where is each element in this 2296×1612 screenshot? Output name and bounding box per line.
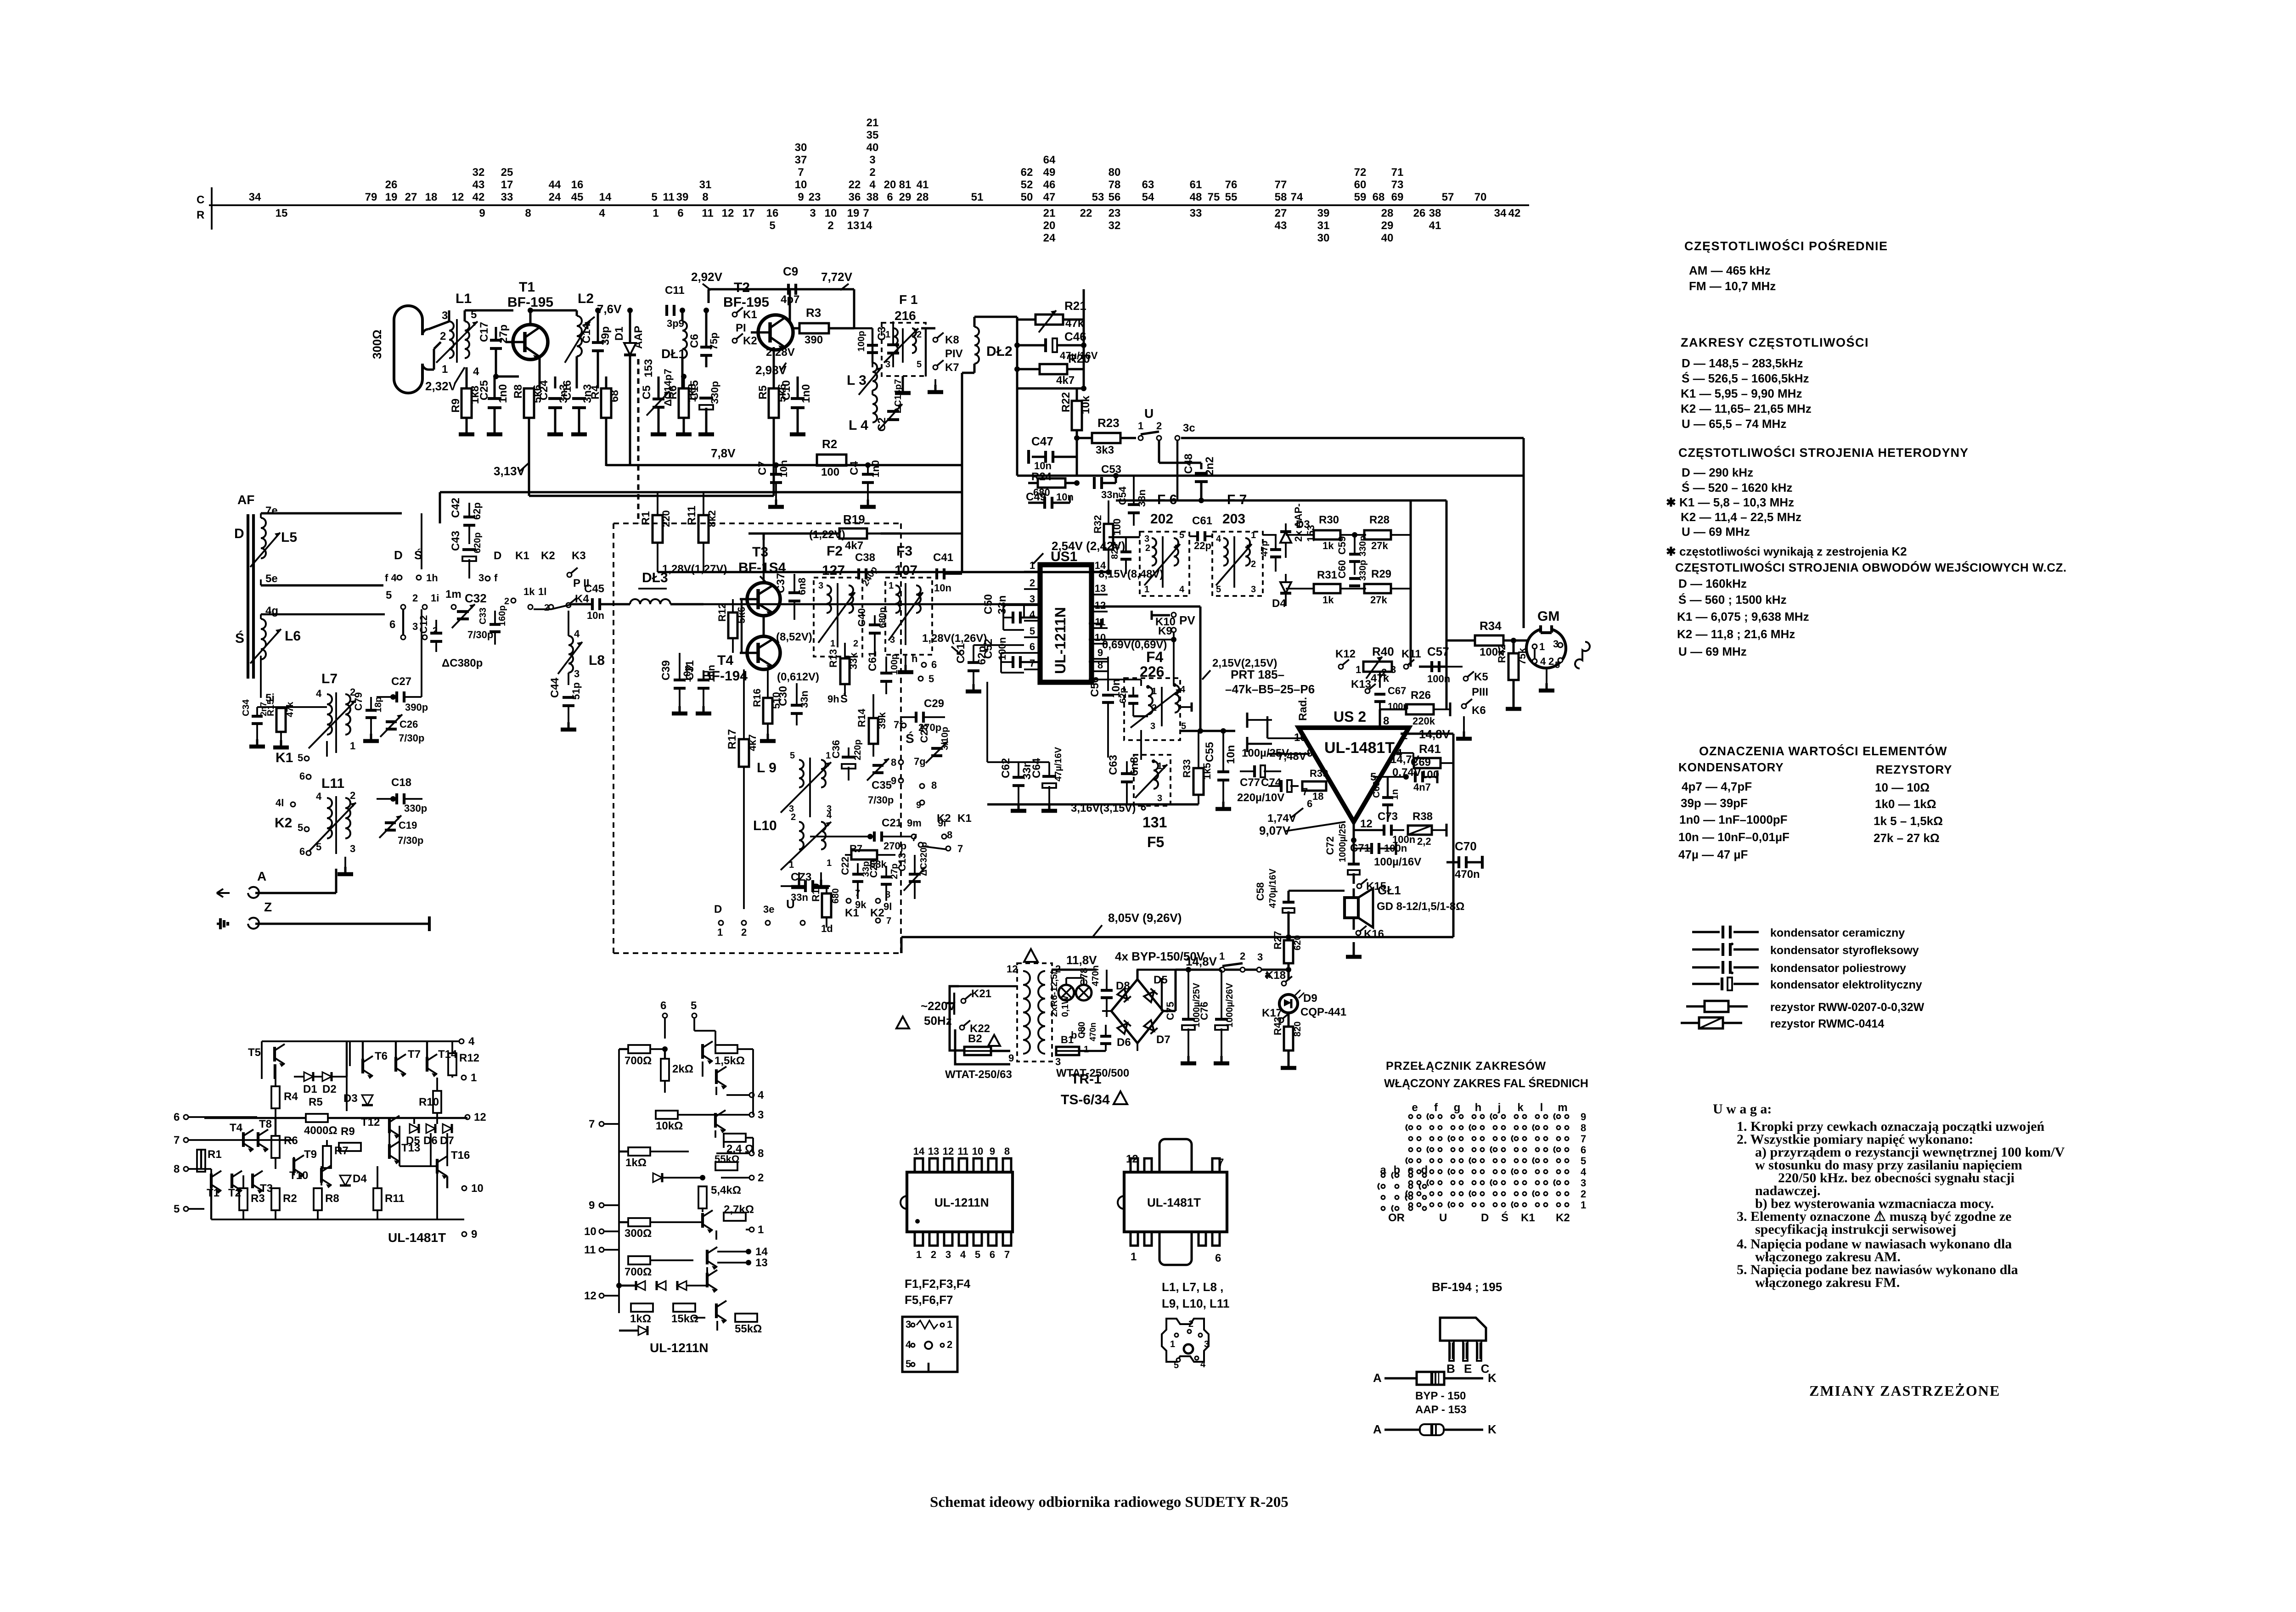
- svg-text:9: 9: [990, 1146, 995, 1157]
- svg-text:1: 1: [830, 639, 835, 649]
- svg-text:160p: 160p: [497, 605, 507, 626]
- svg-text:T13: T13: [401, 1142, 420, 1154]
- svg-text:1: 1: [916, 1249, 922, 1260]
- svg-text:81: 81: [899, 179, 912, 191]
- svg-text:rezystor RWW-0207-0-0,32W: rezystor RWW-0207-0-0,32W: [1770, 1001, 1925, 1014]
- svg-text:1,28V(1,26V): 1,28V(1,26V): [922, 632, 987, 645]
- svg-text:GŁ1: GŁ1: [1378, 883, 1401, 897]
- svg-text:75: 75: [1208, 191, 1220, 203]
- svg-text:C: C: [197, 194, 204, 206]
- resistor R11 int: [373, 1188, 382, 1210]
- svg-text:K2: K2: [870, 907, 884, 919]
- svg-text:3: 3: [1251, 584, 1256, 595]
- svg-text:15kΩ: 15kΩ: [671, 1313, 698, 1325]
- svg-text:R4: R4: [284, 1090, 298, 1103]
- svg-text:C59: C59: [1336, 536, 1348, 555]
- svg-text:L2: L2: [578, 291, 594, 306]
- resistor R12 5k6: [728, 612, 737, 638]
- svg-text:8: 8: [702, 191, 708, 203]
- svg-text:C51: C51: [955, 643, 967, 663]
- svg-text:4: 4: [1180, 685, 1186, 695]
- svg-text:R10: R10: [419, 1096, 439, 1108]
- resistor R24 680: [1038, 478, 1065, 488]
- ps switch 1 2 3a: [1220, 967, 1225, 972]
- svg-text:WTAT-250/500: WTAT-250/500: [1056, 1067, 1129, 1079]
- svg-text:20: 20: [884, 179, 896, 191]
- svg-text:100µ/16V: 100µ/16V: [1374, 856, 1421, 868]
- svg-text:7: 7: [1302, 786, 1308, 798]
- svg-text:27k: 27k: [1370, 594, 1387, 606]
- svg-text:10: 10: [584, 1225, 597, 1238]
- svg-text:7: 7: [1581, 1133, 1586, 1145]
- svg-text:9i: 9i: [938, 817, 946, 829]
- wire F6-F7 chain: [1109, 536, 1140, 538]
- svg-text:C62: C62: [1000, 758, 1012, 778]
- svg-text:3: 3: [758, 1109, 764, 1121]
- svg-text:8: 8: [1581, 1122, 1586, 1134]
- capacitor 82p F6: [1120, 550, 1131, 553]
- svg-text:1: 1: [1581, 1199, 1586, 1211]
- UL-1481T internal bottom rail: [211, 1219, 464, 1220]
- svg-text:390: 390: [805, 334, 823, 346]
- svg-text:10k: 10k: [1080, 395, 1092, 414]
- svg-text:9: 9: [798, 191, 804, 203]
- svg-text:C75: C75: [1165, 1002, 1176, 1020]
- svg-text:34: 34: [249, 191, 261, 203]
- resistor R11 8k2: [698, 515, 709, 543]
- svg-text:K8: K8: [945, 334, 959, 346]
- svg-text:1k5: 1k5: [1201, 763, 1213, 780]
- svg-text:K5: K5: [1474, 671, 1488, 683]
- svg-text:1k0 — 1kΩ: 1k0 — 1kΩ: [1875, 797, 1936, 811]
- svg-text:5: 5: [386, 589, 392, 601]
- svg-text:R42: R42: [1496, 645, 1508, 663]
- svg-text:R29: R29: [1371, 568, 1391, 580]
- svg-text:R26: R26: [1411, 689, 1431, 702]
- svg-text:K2: K2: [541, 550, 555, 562]
- svg-text:9: 9: [1581, 1111, 1586, 1123]
- svg-text:C54: C54: [1117, 486, 1128, 505]
- svg-text:100n: 100n: [996, 637, 1008, 660]
- svg-text:C34: C34: [241, 699, 251, 716]
- svg-text:Ś — 520 – 1620 kHz: Ś — 520 – 1620 kHz: [1682, 481, 1792, 494]
- svg-text:60: 60: [1354, 179, 1367, 191]
- svg-text:R3: R3: [251, 1192, 265, 1205]
- svg-text:KONDENSATORY: KONDENSATORY: [1678, 760, 1784, 774]
- svg-text:4: 4: [1216, 534, 1221, 544]
- svg-text:39p: 39p: [599, 326, 612, 345]
- svg-text:27p: 27p: [497, 325, 510, 343]
- svg-text:PIV: PIV: [945, 348, 963, 360]
- F3 coils: [895, 585, 900, 613]
- svg-text:T6: T6: [375, 1050, 388, 1062]
- resistor R22 10k: [1072, 401, 1082, 430]
- svg-text:R6: R6: [667, 385, 679, 399]
- capacitor C69 4n7: [1414, 771, 1417, 782]
- svg-text:4k7: 4k7: [845, 539, 863, 552]
- capacitor C28 3/10p trimmer: [931, 747, 942, 750]
- svg-text:51p: 51p: [570, 682, 582, 700]
- transistor int a: [701, 1044, 704, 1059]
- svg-text:C26: C26: [400, 719, 418, 730]
- svg-text:620: 620: [1293, 935, 1303, 950]
- potentiometer R40 47k: [1363, 662, 1392, 672]
- svg-text:K1: K1: [743, 309, 757, 321]
- svg-text:T4: T4: [717, 653, 733, 668]
- svg-text:3p9: 3p9: [667, 318, 684, 329]
- capacitor C49 10n: [1043, 497, 1046, 509]
- svg-text:U — 69 MHz: U — 69 MHz: [1678, 645, 1747, 658]
- svg-text:8: 8: [931, 780, 937, 791]
- svg-text:kondensator poliestrowy: kondensator poliestrowy: [1770, 962, 1906, 975]
- svg-text:1k: 1k: [523, 586, 535, 597]
- svg-text:2: 2: [947, 1339, 952, 1350]
- svg-text:3: 3: [1553, 638, 1559, 650]
- svg-text:2: 2: [931, 1249, 936, 1260]
- wire R20 node down: [1083, 349, 1085, 388]
- svg-text:12: 12: [584, 1290, 597, 1302]
- svg-text:D: D: [394, 548, 403, 562]
- svg-text:1: 1: [1084, 1045, 1089, 1055]
- svg-text:48: 48: [1190, 191, 1202, 203]
- svg-text:1kΩ: 1kΩ: [630, 1313, 651, 1325]
- svg-text:5: 5: [917, 359, 922, 370]
- svg-text:b: b: [1071, 1029, 1077, 1041]
- svg-text:64: 64: [1043, 154, 1056, 166]
- capacitor C59 330p: [1349, 553, 1360, 556]
- svg-text:11: 11: [584, 1244, 596, 1256]
- coil shield can: [1162, 1319, 1209, 1362]
- wire US1 pin8 to F4: [1089, 679, 1141, 680]
- diode D1 AAP-153: [624, 343, 636, 355]
- svg-text:13: 13: [1095, 583, 1106, 594]
- mains wires: [953, 993, 955, 1015]
- svg-text:54: 54: [1142, 191, 1154, 203]
- svg-text:5: 5: [691, 1000, 697, 1012]
- transistor int e: [706, 1250, 709, 1264]
- transistor T13: [388, 1144, 391, 1159]
- capacitor C37 6n8: [788, 591, 800, 594]
- svg-text:BYP - 150: BYP - 150: [1415, 1390, 1466, 1402]
- diode D4 int: [340, 1175, 351, 1185]
- svg-text:B2: B2: [968, 1033, 982, 1045]
- filter box symbol: [902, 1317, 957, 1372]
- svg-text:7/30p: 7/30p: [399, 732, 424, 744]
- resistor R32 100: [1104, 524, 1113, 550]
- diodes D5 D6 D7: [410, 1124, 419, 1133]
- svg-text:C30: C30: [777, 686, 789, 706]
- svg-text:U: U: [786, 897, 795, 911]
- svg-text:k: k: [1517, 1101, 1524, 1114]
- svg-text:300Ω: 300Ω: [625, 1227, 652, 1240]
- svg-text:R43: R43: [1272, 1017, 1283, 1035]
- svg-text:R11: R11: [686, 506, 698, 525]
- svg-text:2,32V: 2,32V: [425, 379, 457, 393]
- warning triangle mains: [896, 1017, 909, 1028]
- resistor R3 int: [239, 1188, 248, 1210]
- US1 pin11 ground stub: [1089, 623, 1101, 624]
- capacitor C32 7/30p trimmer: [457, 610, 469, 613]
- svg-text:L6: L6: [285, 629, 301, 644]
- svg-text:1,5kΩ: 1,5kΩ: [715, 1055, 745, 1067]
- svg-text:C39: C39: [660, 660, 672, 680]
- svg-text:4: 4: [316, 791, 322, 802]
- resistor R10 680: [822, 893, 831, 917]
- svg-text:R10: R10: [810, 883, 822, 902]
- svg-text:D6: D6: [1117, 1036, 1131, 1049]
- svg-text:4: 4: [1179, 584, 1185, 595]
- svg-text:T3: T3: [752, 545, 768, 560]
- svg-text:–47k–B5–25–P6: –47k–B5–25–P6: [1225, 682, 1315, 696]
- svg-text:700Ω: 700Ω: [625, 1055, 652, 1067]
- pin 7 left: [599, 1122, 604, 1126]
- BF package legs: [1449, 1341, 1454, 1361]
- F1 ground: [902, 376, 904, 386]
- svg-text:1k: 1k: [1322, 540, 1334, 551]
- resistor 1,5k: [715, 1045, 737, 1053]
- svg-text:K2 — 11,65– 21,65 MHz: K2 — 11,65– 21,65 MHz: [1681, 402, 1812, 416]
- resistor R19 4k7: [839, 528, 867, 539]
- svg-text:US1: US1: [1051, 549, 1077, 564]
- resistor R3 390: [799, 323, 829, 333]
- svg-text:3: 3: [1055, 1056, 1061, 1067]
- svg-text:C44: C44: [549, 677, 561, 698]
- svg-text:270p: 270p: [884, 840, 906, 852]
- resistor R12 int: [448, 1053, 456, 1075]
- resistor R1 220: [653, 515, 663, 543]
- svg-text:U: U: [1144, 406, 1154, 421]
- svg-text:C63: C63: [1107, 755, 1120, 775]
- svg-text:C31: C31: [684, 660, 696, 680]
- svg-text:68: 68: [608, 390, 621, 402]
- svg-text:2: 2: [869, 166, 875, 179]
- svg-text:1: 1: [758, 1224, 764, 1236]
- legend kondensator ceramiczny: [1692, 931, 1720, 933]
- svg-text:6: 6: [931, 659, 937, 670]
- svg-text:22p: 22p: [1194, 540, 1211, 551]
- svg-text:C19: C19: [399, 820, 417, 831]
- svg-text:2: 2: [350, 790, 355, 801]
- svg-text:T16: T16: [451, 1149, 470, 1162]
- svg-text:R40: R40: [1372, 645, 1394, 658]
- capacitor C13 C320p trimmer: [909, 873, 921, 876]
- svg-text:K21: K21: [971, 988, 991, 1000]
- svg-text:T9: T9: [304, 1148, 317, 1161]
- svg-text:5: 5: [1179, 530, 1184, 540]
- wire T2 collector up: [789, 289, 791, 321]
- svg-text:K1: K1: [957, 812, 972, 825]
- resistor R5 4000: [306, 1114, 328, 1122]
- svg-text:3: 3: [1150, 721, 1155, 731]
- svg-text:C18: C18: [391, 776, 411, 789]
- svg-text:Ś: Ś: [840, 692, 848, 705]
- svg-text:f: f: [494, 572, 498, 584]
- capacitor C50 33n: [1012, 612, 1014, 623]
- wire DL2 rails: [974, 316, 1017, 318]
- svg-text:33k: 33k: [848, 652, 859, 669]
- UL-1481T internal top rail: [262, 1040, 461, 1042]
- svg-text:10 — 10Ω: 10 — 10Ω: [1875, 781, 1930, 794]
- capacitor C23 33n: [804, 880, 807, 892]
- transistors T6 T7 T14: [361, 1059, 364, 1073]
- switch K11: [1404, 664, 1408, 669]
- svg-text:1: 1: [1401, 730, 1407, 742]
- svg-text:C4: C4: [848, 461, 861, 475]
- svg-text:4n7: 4n7: [1413, 781, 1431, 793]
- svg-text:✱ K1 — 5,8 – 10,3 MHz: ✱ K1 — 5,8 – 10,3 MHz: [1666, 495, 1794, 509]
- right vertical rail to GM: [1523, 438, 1525, 628]
- svg-text:1: 1: [1144, 584, 1149, 595]
- svg-text:Ś: Ś: [235, 630, 244, 646]
- svg-text:T1: T1: [207, 1187, 219, 1199]
- svg-text:R41: R41: [1419, 742, 1441, 756]
- svg-text:C42: C42: [450, 498, 462, 518]
- capacitor C10 1n0: [791, 397, 805, 400]
- svg-text:20: 20: [1043, 219, 1056, 232]
- svg-text:3: 3: [1204, 1339, 1209, 1349]
- svg-text:C14: C14: [580, 323, 593, 343]
- svg-text:T1: T1: [519, 280, 535, 295]
- svg-text:5: 5: [298, 822, 303, 833]
- svg-text:11: 11: [957, 1146, 968, 1157]
- svg-text:C46: C46: [1064, 330, 1086, 343]
- svg-text:1n0: 1n0: [800, 384, 812, 403]
- svg-text:76: 76: [1225, 179, 1238, 191]
- switch contact K1 PI K2: [732, 312, 737, 317]
- wire bus y1072: [440, 491, 962, 494]
- svg-text:C64: C64: [1030, 758, 1043, 778]
- UL-1481T internal extra wires: [210, 1169, 212, 1188]
- svg-text:59: 59: [1354, 191, 1367, 203]
- svg-text:ZAKRESY CZĘSTOTLIWOŚCI: ZAKRESY CZĘSTOTLIWOŚCI: [1681, 335, 1869, 349]
- IC US2 UL-1481T triangle: [1299, 728, 1409, 822]
- svg-text:4: 4: [316, 688, 322, 699]
- svg-text:a: a: [1265, 969, 1271, 980]
- wire to F1: [853, 289, 855, 328]
- capacitor C71 100n: [1370, 843, 1373, 854]
- svg-text:6n8: 6n8: [1128, 757, 1141, 776]
- svg-text:9: 9: [891, 775, 896, 786]
- svg-text:14: 14: [913, 1146, 925, 1157]
- GM hook symbol: [1575, 642, 1590, 668]
- F4 ground stub: [1180, 706, 1192, 708]
- svg-text:CZĘSTOTLIWOŚCI STROJENIA HE: CZĘSTOTLIWOŚCI STROJENIA HETERODYNY: [1678, 445, 1969, 460]
- svg-text:C61: C61: [867, 651, 879, 671]
- svg-text:F5,F6,F7: F5,F6,F7: [905, 1293, 953, 1307]
- svg-text:C48: C48: [1182, 454, 1195, 474]
- resistor 300R: [628, 1218, 650, 1226]
- svg-text:14: 14: [860, 219, 872, 232]
- svg-text:R17: R17: [726, 729, 738, 749]
- resistor 55k b: [735, 1314, 757, 1322]
- svg-text:78: 78: [1109, 179, 1121, 191]
- svg-text:1: 1: [1138, 420, 1143, 432]
- svg-text:9: 9: [471, 1228, 477, 1241]
- F3 ground: [905, 655, 906, 666]
- svg-text:4: 4: [599, 207, 605, 219]
- svg-text:C72: C72: [1324, 837, 1336, 855]
- svg-text:C9: C9: [783, 264, 798, 278]
- svg-text:T2: T2: [734, 280, 750, 295]
- transistors T1 T2 T3: [210, 1174, 213, 1188]
- svg-text:10n: 10n: [1034, 460, 1052, 472]
- svg-text:14,8V: 14,8V: [1186, 955, 1217, 968]
- svg-text:30: 30: [795, 141, 807, 154]
- capacitor C20 27p: [881, 876, 892, 878]
- svg-text:U w a g a:: U w a g a:: [1713, 1101, 1772, 1117]
- svg-text:22: 22: [1080, 207, 1092, 219]
- svg-text:7,72V: 7,72V: [821, 270, 853, 284]
- svg-text:203: 203: [1222, 511, 1245, 527]
- svg-text:5: 5: [906, 1358, 911, 1370]
- transistor int g: [715, 1303, 718, 1318]
- capacitor C56 10n: [1102, 694, 1114, 696]
- svg-text:5: 5: [1581, 1155, 1586, 1167]
- svg-text:C21: C21: [882, 817, 902, 829]
- wire discriminator rail: [1410, 500, 1412, 589]
- svg-text:D — 160kHz: D — 160kHz: [1678, 577, 1747, 590]
- svg-text:T8: T8: [259, 1118, 272, 1130]
- svg-text:e: e: [1412, 1101, 1418, 1114]
- pin 10 left: [599, 1229, 604, 1234]
- svg-text:D8: D8: [1116, 980, 1130, 992]
- box around T2 top wire: [709, 288, 854, 291]
- svg-text:D — 290 kHz: D — 290 kHz: [1682, 466, 1753, 479]
- svg-text:12: 12: [452, 191, 464, 203]
- svg-text:2: 2: [827, 219, 833, 232]
- wire left drop x958: [439, 492, 441, 523]
- component index ruler line: [209, 204, 1529, 206]
- capacitor C9 4p7: [787, 284, 790, 295]
- pin 2 right: [721, 1177, 749, 1179]
- svg-text:10kΩ: 10kΩ: [656, 1120, 683, 1132]
- svg-text:R28: R28: [1369, 514, 1390, 526]
- svg-text:7/30p: 7/30p: [467, 629, 493, 640]
- UL-1481T internal pins right: [459, 1039, 464, 1044]
- resistor R13 33k: [840, 658, 850, 684]
- svg-text:1k: 1k: [1322, 594, 1334, 606]
- svg-text:L 9: L 9: [757, 760, 777, 775]
- svg-text:7: 7: [863, 207, 869, 219]
- svg-text:PRZEŁĄCZNIK ZAKRESÓW: PRZEŁĄCZNIK ZAKRESÓW: [1386, 1059, 1546, 1073]
- svg-text:C45: C45: [584, 583, 604, 595]
- svg-text:C5: C5: [641, 385, 653, 399]
- svg-text:R27: R27: [1272, 931, 1283, 949]
- wire T1 emitter down: [539, 356, 541, 388]
- ground R9: [466, 427, 468, 434]
- svg-text:U — 65,5 – 74 MHz: U — 65,5 – 74 MHz: [1682, 417, 1786, 431]
- svg-text:33n: 33n: [799, 691, 810, 708]
- svg-text:C27: C27: [391, 675, 411, 688]
- svg-text:15: 15: [276, 207, 288, 219]
- svg-text:12: 12: [943, 1146, 954, 1157]
- svg-text:14: 14: [599, 191, 612, 203]
- filter F2 dashed box: [814, 578, 862, 657]
- svg-text:3: 3: [818, 581, 823, 591]
- svg-text:47k: 47k: [285, 702, 295, 717]
- svg-text:Ś — 526,5 – 1606,5kHz: Ś — 526,5 – 1606,5kHz: [1682, 371, 1809, 385]
- svg-text:L9, L10, L11: L9, L10, L11: [1162, 1297, 1229, 1310]
- svg-text:5,4kΩ: 5,4kΩ: [711, 1184, 741, 1196]
- bus line y1090: [1116, 500, 1446, 502]
- svg-text:1: 1: [653, 207, 658, 219]
- resistor R33 1k5: [1193, 768, 1204, 795]
- svg-text:2: 2: [1156, 420, 1162, 432]
- svg-text:U — 69 MHz: U — 69 MHz: [1682, 525, 1750, 539]
- transistors T4 T8: [257, 1132, 259, 1147]
- resistor 2,4R: [724, 1134, 746, 1142]
- svg-text:D5: D5: [1154, 974, 1168, 986]
